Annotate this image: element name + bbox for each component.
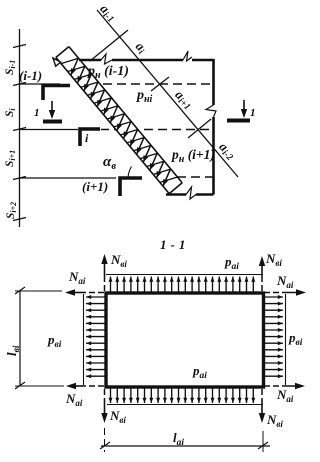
svg-text:1: 1 — [34, 107, 40, 119]
svg-text:(i+1): (i+1) — [82, 179, 108, 194]
break symbol on right edge — [206, 105, 216, 117]
dashed strip line (i-1) right part — [103, 83, 213, 85]
svg-text:1: 1 — [250, 107, 256, 119]
break symbol 2 on top edge — [183, 51, 192, 61]
left load envelope — [83, 294, 85, 385]
left load arrows p_vi — [86, 297, 105, 376]
band rungs — [61, 58, 177, 182]
corner force N_vi bottom-left — [104, 389, 106, 400]
break symbol on bottom edge — [186, 187, 196, 199]
corner force N_vi top-right — [261, 277, 263, 291]
corner bracket i — [80, 129, 100, 146]
right load envelope — [285, 294, 287, 385]
band distributed load arrows — [71, 59, 170, 186]
svg-text:1-1: 1-1 — [160, 237, 189, 252]
axis line a (long diagonal) — [97, 10, 238, 177]
bottom short edge with break — [166, 193, 186, 196]
bottom load envelope — [107, 404, 263, 406]
corner force N_ai bottom-left — [84, 385, 104, 387]
transverse tick at i crossing — [188, 119, 211, 138]
strip boundary line (i-1) left part — [20, 83, 61, 85]
bottom load arrows p_ai — [111, 388, 254, 403]
section mark 1 right: arrow — [243, 100, 245, 116]
tick S at (i-1) line — [13, 83, 26, 86]
tick S at i line — [13, 128, 26, 131]
corner force N_vi bottom-right — [261, 389, 263, 400]
strip boundary line i left part — [20, 129, 79, 131]
section mark 1 right: bar — [227, 119, 250, 123]
svg-text:pн (i-1): pн (i-1) — [87, 64, 129, 81]
section mark 1 left: bar — [43, 120, 62, 124]
dimension l_ai — [104, 428, 106, 452]
right load arrows p_vi — [264, 297, 283, 376]
section mark 1 left: arrow — [51, 101, 53, 117]
corner force N_ai top-left — [84, 292, 104, 294]
top load arrows p_ai — [111, 277, 254, 293]
dimension l_vi — [19, 290, 21, 386]
corner force N_ai top-right — [264, 292, 284, 294]
dashed strip line i (middle parts) — [101, 129, 116, 131]
corner bracket (i-1) — [43, 86, 70, 101]
tick S at (i+1) line — [13, 177, 26, 180]
left dimension line S — [19, 29, 21, 227]
corner force N_vi top-left — [104, 277, 106, 291]
transverse tick at (i-1) crossing — [151, 77, 169, 91]
dashed strip line (i+1) right part — [177, 176, 213, 178]
top slab edge (bold) with break symbols — [79, 59, 101, 62]
tick S bottom — [13, 218, 26, 221]
angle arc — [128, 167, 132, 179]
plate rectangle — [106, 293, 264, 387]
transverse axis stroke at top crossing — [90, 30, 128, 61]
svg-text:(i-1): (i-1) — [19, 68, 42, 83]
strip boundary line (i+1) left part — [20, 177, 117, 179]
top load envelope — [106, 274, 263, 276]
open arrow at band top — [53, 58, 61, 66]
corner force N_ai bottom-right — [264, 385, 284, 387]
band strip (inclined loaded strip) edges — [56, 47, 182, 194]
break symbol 1 on top edge — [101, 54, 112, 64]
tick S top — [13, 45, 26, 48]
right slab edge (bold) with break — [212, 59, 215, 105]
corner bracket (i+1) — [120, 178, 142, 196]
